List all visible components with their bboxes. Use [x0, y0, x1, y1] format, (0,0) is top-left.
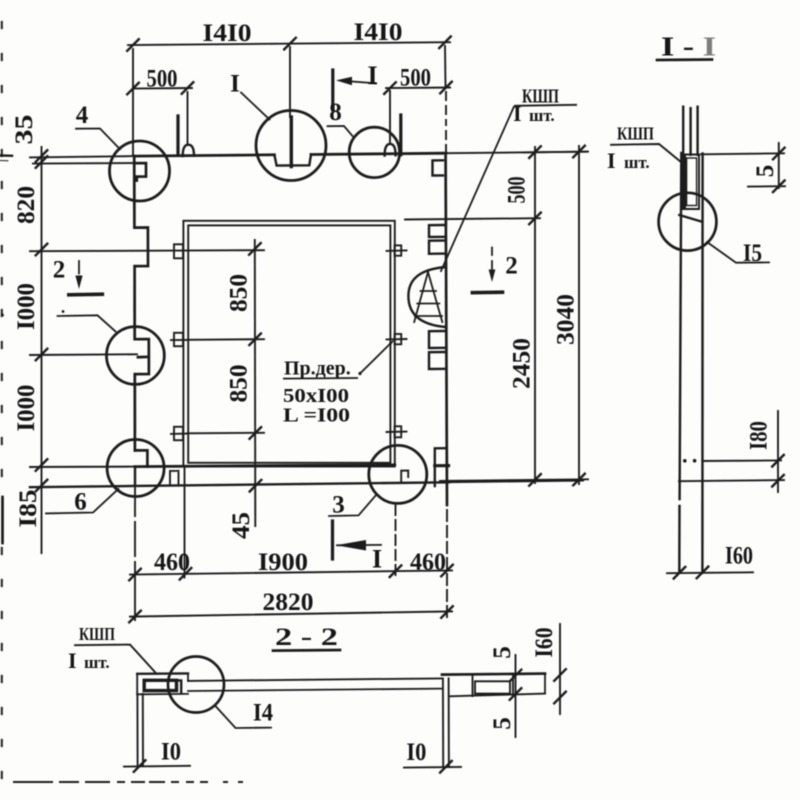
svg-text:Iшт.: Iшт. [607, 148, 650, 173]
svg-text:35: 35 [11, 115, 38, 145]
svg-text:2820: 2820 [263, 589, 314, 616]
svg-text:I5: I5 [743, 240, 762, 267]
svg-text:5: 5 [752, 165, 779, 178]
svg-text:4: 4 [76, 102, 89, 129]
svg-text:I900: I900 [258, 549, 308, 576]
svg-text:2: 2 [53, 257, 66, 284]
svg-text:I0: I0 [406, 739, 426, 766]
svg-text:I: I [367, 61, 377, 90]
svg-text:I60: I60 [531, 628, 558, 658]
svg-text:I60: I60 [725, 543, 753, 570]
svg-text:I - I: I - I [661, 32, 716, 62]
svg-text:3: 3 [332, 492, 345, 519]
svg-text:5: 5 [489, 646, 516, 659]
svg-text:850: 850 [226, 274, 253, 312]
svg-text:I: I [230, 71, 240, 98]
svg-text:500: 500 [400, 65, 431, 92]
svg-text:2450: 2450 [509, 338, 536, 389]
svg-text:I: I [372, 545, 382, 574]
svg-text:I4I0: I4I0 [354, 19, 403, 46]
svg-text:КШП: КШП [522, 86, 559, 108]
svg-text:I000: I000 [13, 385, 40, 432]
svg-text:45: 45 [228, 512, 255, 539]
svg-text:500: 500 [147, 66, 178, 93]
svg-text:3040: 3040 [553, 294, 580, 345]
svg-text:I4: I4 [253, 700, 273, 727]
svg-text:2: 2 [505, 253, 518, 280]
svg-text:460: 460 [410, 549, 446, 576]
svg-text:820: 820 [13, 186, 40, 224]
svg-text:850: 850 [226, 365, 253, 403]
svg-text:8: 8 [329, 99, 342, 126]
svg-text:КШП: КШП [79, 624, 115, 644]
svg-text:I80: I80 [746, 421, 773, 450]
svg-text:I85: I85 [15, 490, 42, 528]
svg-text:5: 5 [489, 717, 516, 730]
svg-text:I4I0: I4I0 [203, 20, 252, 47]
svg-text:500: 500 [504, 177, 531, 204]
svg-text:Пр.дер.: Пр.дер. [284, 358, 351, 380]
svg-text:Iшт.: Iшт. [68, 648, 110, 673]
svg-text:I0: I0 [161, 739, 181, 766]
svg-text:6: 6 [74, 489, 87, 516]
svg-text:460: 460 [154, 549, 190, 576]
svg-text:I000: I000 [13, 283, 40, 330]
svg-text:2 - 2: 2 - 2 [275, 624, 338, 651]
svg-text:L =I00: L =I00 [283, 405, 350, 427]
svg-text:КШП: КШП [617, 124, 654, 144]
